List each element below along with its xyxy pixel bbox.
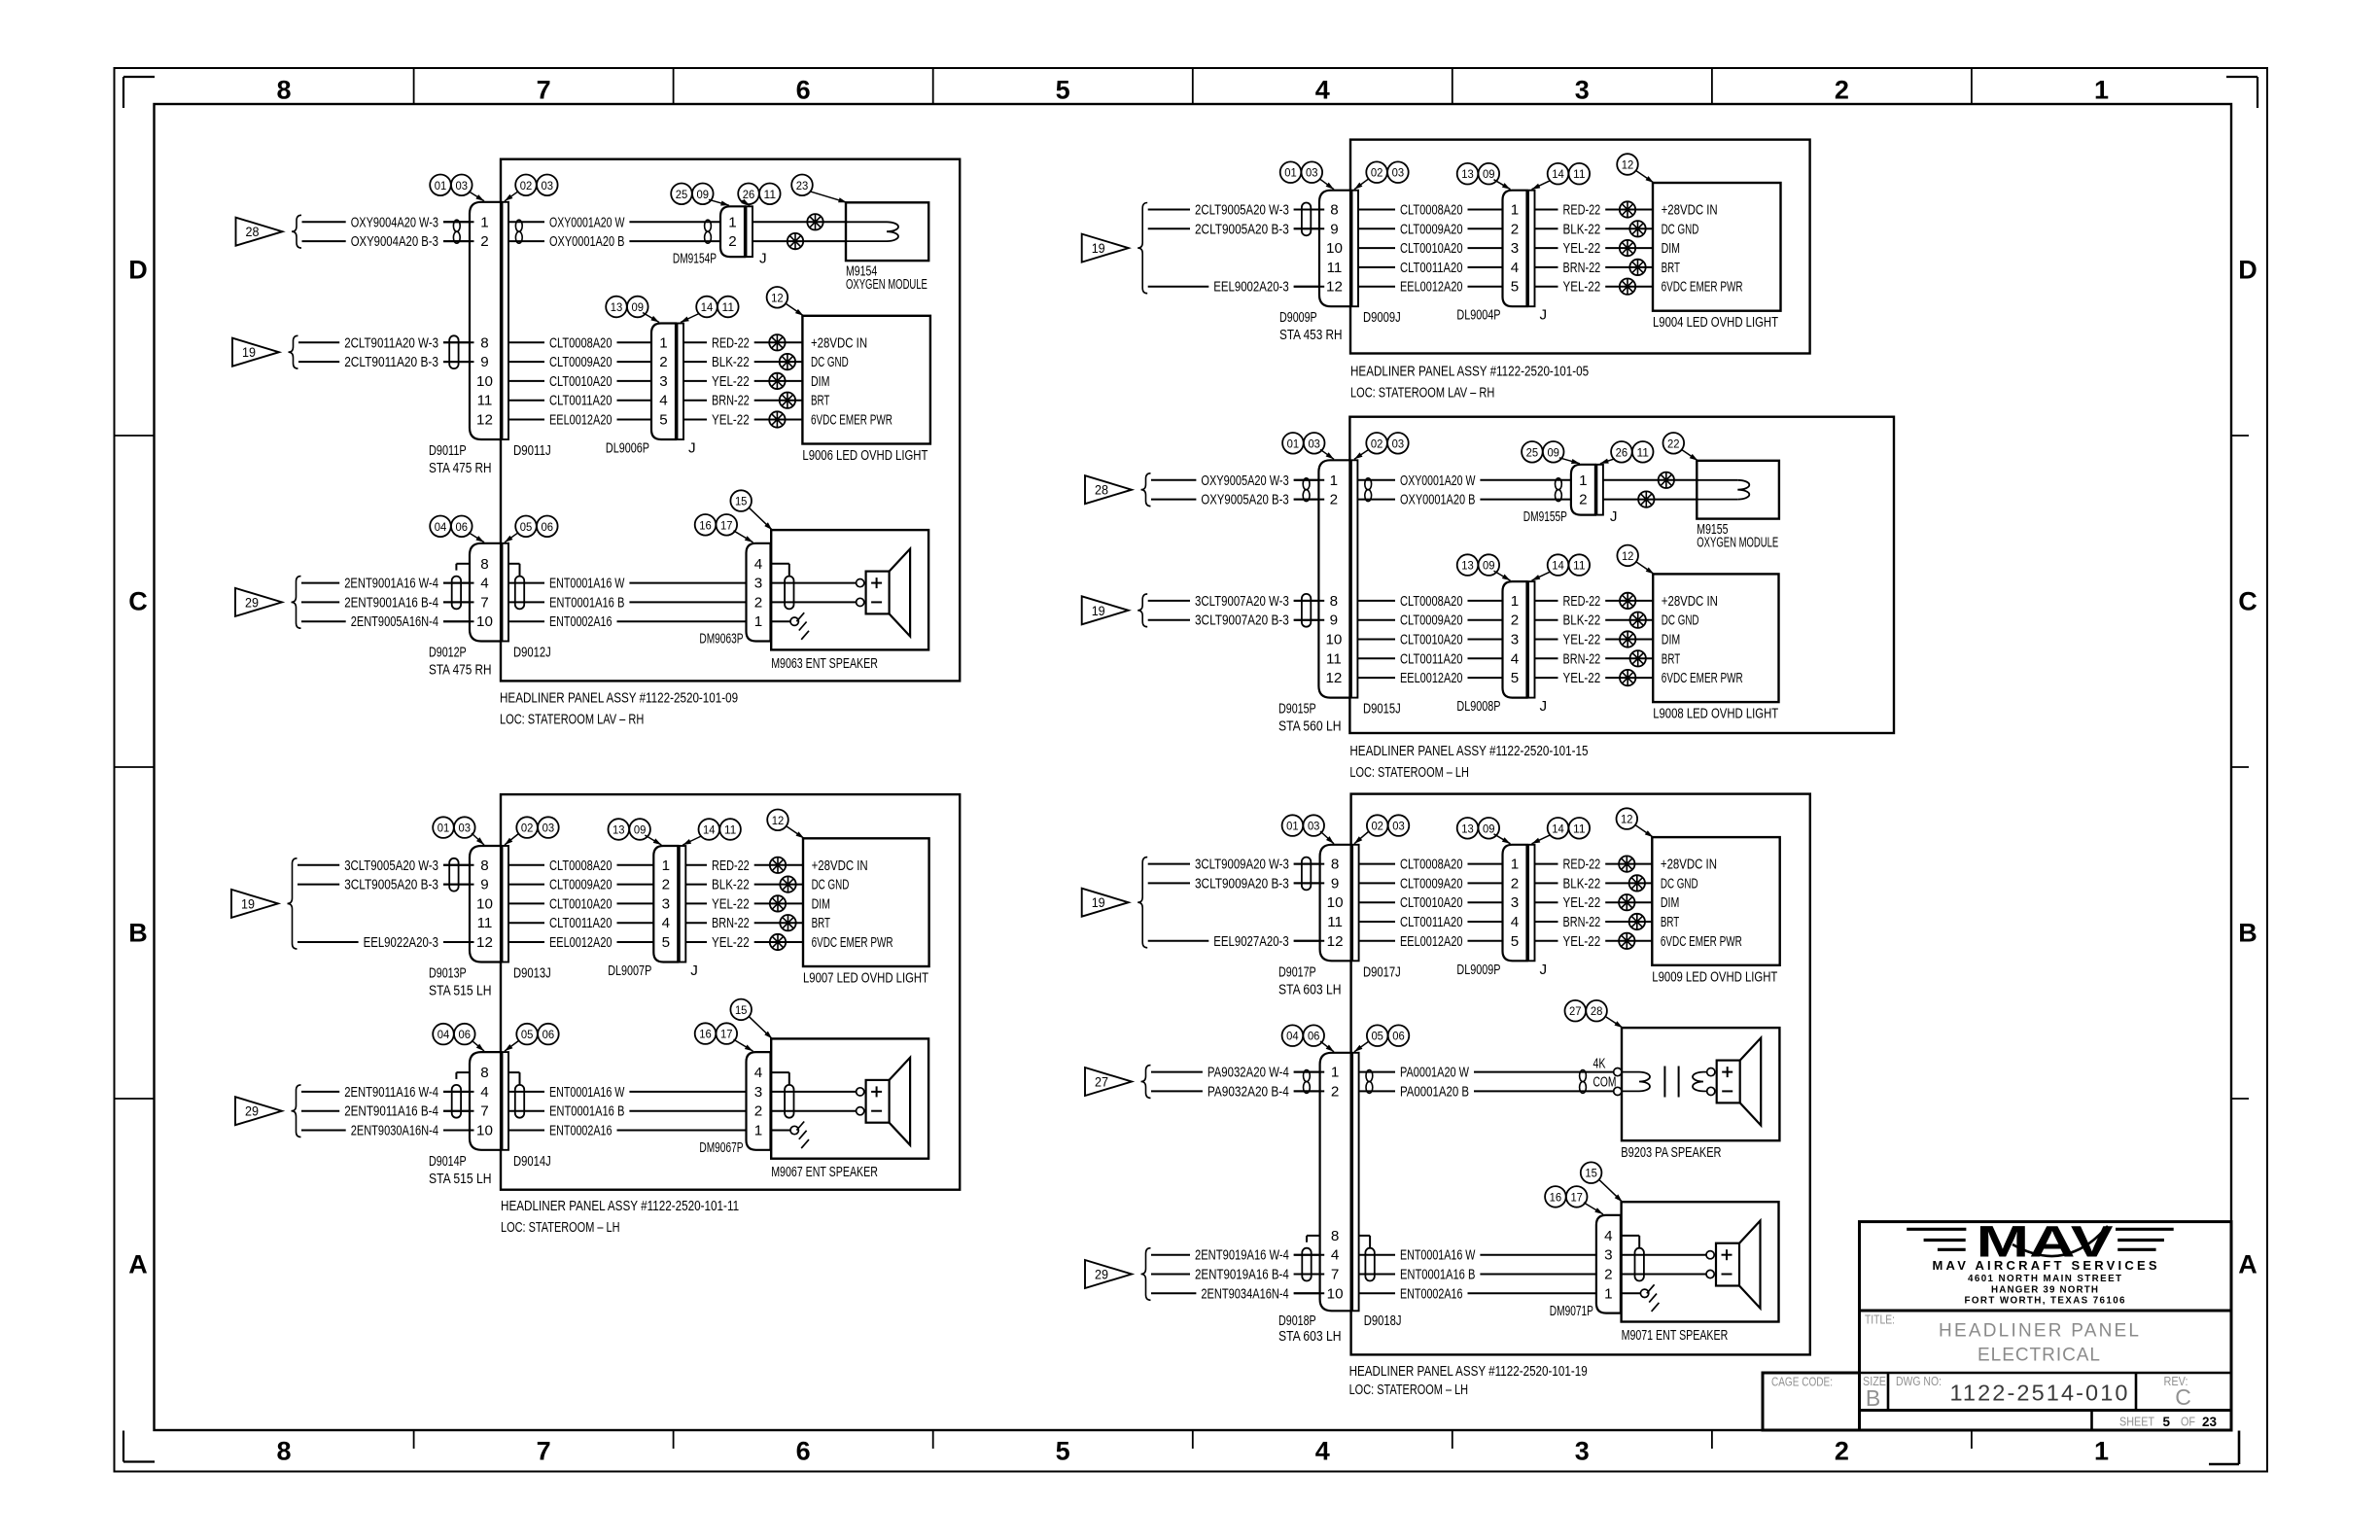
svg-text:ENT0001A16 W: ENT0001A16 W <box>1400 1247 1476 1264</box>
svg-text:10: 10 <box>1326 240 1343 257</box>
svg-text:1: 1 <box>1330 472 1338 489</box>
svg-text:01: 01 <box>437 822 450 835</box>
svg-text:D: D <box>128 256 148 285</box>
svg-text:CLT0010A20: CLT0010A20 <box>1400 894 1463 911</box>
svg-text:HEADLINER PANEL ASSY #1122-252: HEADLINER PANEL ASSY #1122-2520-101-09 <box>500 689 738 706</box>
svg-text:L9007 LED OVHD LIGHT: L9007 LED OVHD LIGHT <box>803 970 928 987</box>
svg-text:D9018P: D9018P <box>1278 1312 1316 1329</box>
svg-text:11: 11 <box>477 393 493 409</box>
svg-text:10: 10 <box>1325 632 1342 648</box>
svg-text:3CLT9005A20 W-3: 3CLT9005A20 W-3 <box>344 857 438 874</box>
svg-text:2ENT9030A16N-4: 2ENT9030A16N-4 <box>351 1123 438 1139</box>
svg-text:CLT0011A20: CLT0011A20 <box>1400 914 1463 930</box>
svg-text:HEADLINER PANEL ASSY #1122-252: HEADLINER PANEL ASSY #1122-2520-101-05 <box>1350 363 1589 379</box>
svg-text:CLT0009A20: CLT0009A20 <box>549 354 612 370</box>
svg-text:M9063 ENT SPEAKER: M9063 ENT SPEAKER <box>771 655 878 672</box>
svg-text:1: 1 <box>1511 202 1519 219</box>
svg-text:6VDC EMER PWR: 6VDC EMER PWR <box>811 412 892 429</box>
svg-text:17: 17 <box>1570 1190 1583 1204</box>
svg-text:YEL-22: YEL-22 <box>1563 240 1601 257</box>
svg-text:3: 3 <box>1575 1437 1590 1466</box>
svg-text:4: 4 <box>1511 650 1519 667</box>
svg-text:TITLE:: TITLE: <box>1865 1313 1895 1327</box>
svg-text:09: 09 <box>1483 822 1495 835</box>
svg-text:BRN-22: BRN-22 <box>712 915 750 931</box>
svg-text:19: 19 <box>1092 241 1105 256</box>
svg-text:4601 NORTH MAIN STREET: 4601 NORTH MAIN STREET <box>1968 1274 2121 1284</box>
svg-text:09: 09 <box>697 188 710 201</box>
svg-text:+28VDC IN: +28VDC IN <box>812 857 868 874</box>
svg-text:7: 7 <box>537 76 551 105</box>
svg-text:ENT0001A16 B: ENT0001A16 B <box>1400 1267 1475 1283</box>
svg-text:OXY0001A20 B: OXY0001A20 B <box>1400 492 1475 508</box>
svg-text:5: 5 <box>1511 670 1519 686</box>
svg-text:D9014J: D9014J <box>513 1153 551 1170</box>
svg-text:EEL0012A20: EEL0012A20 <box>1400 670 1463 686</box>
svg-text:PA0001A20 W: PA0001A20 W <box>1400 1065 1469 1081</box>
svg-text:D9015J: D9015J <box>1363 701 1401 717</box>
svg-text:L9006 LED OVHD LIGHT: L9006 LED OVHD LIGHT <box>802 447 927 464</box>
svg-text:12: 12 <box>1621 813 1633 826</box>
svg-text:28: 28 <box>1095 483 1108 498</box>
svg-text:DIM: DIM <box>1662 240 1680 257</box>
svg-text:BLK-22: BLK-22 <box>1563 612 1601 629</box>
svg-text:BRN-22: BRN-22 <box>1563 650 1601 667</box>
svg-text:19: 19 <box>241 896 255 911</box>
svg-text:EEL0012A20: EEL0012A20 <box>1400 933 1463 950</box>
svg-text:ENT0001A16 W: ENT0001A16 W <box>549 576 625 592</box>
svg-text:1: 1 <box>1604 1285 1612 1302</box>
svg-text:2: 2 <box>1835 76 1849 105</box>
svg-text:STA 603 LH: STA 603 LH <box>1278 1328 1342 1345</box>
svg-text:02: 02 <box>1371 437 1383 450</box>
svg-text:+28VDC IN: +28VDC IN <box>1661 857 1717 873</box>
svg-text:C: C <box>2238 587 2257 616</box>
svg-text:5: 5 <box>1056 1437 1070 1466</box>
svg-text:CLT0008A20: CLT0008A20 <box>1400 202 1463 219</box>
svg-text:06: 06 <box>1392 1030 1405 1043</box>
svg-text:11: 11 <box>722 300 735 314</box>
svg-text:OXY9004A20 W-3: OXY9004A20 W-3 <box>351 214 438 230</box>
svg-text:PA9032A20 W-4: PA9032A20 W-4 <box>1207 1065 1289 1081</box>
svg-text:D: D <box>2238 256 2257 285</box>
svg-text:2: 2 <box>662 877 670 893</box>
svg-text:LOC: STATEROOM LAV – RH: LOC: STATEROOM LAV – RH <box>500 711 644 727</box>
svg-text:8: 8 <box>480 556 488 573</box>
svg-text:5: 5 <box>1511 279 1519 296</box>
svg-text:8: 8 <box>1331 857 1339 873</box>
svg-text:LOC: STATEROOM LAV – RH: LOC: STATEROOM LAV – RH <box>1350 384 1494 401</box>
svg-text:CLT0011A20: CLT0011A20 <box>1400 260 1463 276</box>
svg-text:04: 04 <box>1286 1030 1299 1043</box>
svg-text:DC GND: DC GND <box>1662 612 1699 629</box>
svg-text:09: 09 <box>634 823 647 837</box>
svg-text:EEL0012A20: EEL0012A20 <box>549 934 612 951</box>
svg-text:19: 19 <box>1092 604 1105 618</box>
svg-text:DM9063P: DM9063P <box>699 631 743 647</box>
svg-text:YEL-22: YEL-22 <box>1563 670 1601 686</box>
svg-text:RED-22: RED-22 <box>1563 593 1601 610</box>
svg-text:B: B <box>128 919 148 948</box>
svg-text:2ENT9005A16N-4: 2ENT9005A16N-4 <box>351 613 438 630</box>
svg-text:ENT0002A16: ENT0002A16 <box>1400 1285 1463 1302</box>
svg-text:D9011J: D9011J <box>513 442 551 459</box>
svg-text:5: 5 <box>1056 76 1070 105</box>
svg-text:09: 09 <box>1547 445 1559 459</box>
svg-text:7: 7 <box>480 1103 488 1120</box>
svg-text:STA 475 RH: STA 475 RH <box>429 460 492 476</box>
svg-text:3: 3 <box>1511 240 1519 257</box>
svg-text:9: 9 <box>1330 221 1338 237</box>
svg-text:OXY9005A20 W-3: OXY9005A20 W-3 <box>1201 472 1288 489</box>
svg-text:CLT0010A20: CLT0010A20 <box>549 373 612 390</box>
svg-text:CLT0010A20: CLT0010A20 <box>1400 240 1463 257</box>
svg-text:2ENT9019A16 W-4: 2ENT9019A16 W-4 <box>1195 1247 1289 1264</box>
svg-text:22: 22 <box>1667 437 1680 450</box>
svg-text:7: 7 <box>1331 1267 1339 1283</box>
svg-text:HEADLINER PANEL ASSY #1122-252: HEADLINER PANEL ASSY #1122-2520-101-15 <box>1349 743 1588 759</box>
svg-text:DL9008P: DL9008P <box>1456 698 1500 715</box>
svg-text:11: 11 <box>1326 650 1342 667</box>
svg-text:CLT0008A20: CLT0008A20 <box>1400 593 1463 610</box>
svg-text:OXY9004A20 B-3: OXY9004A20 B-3 <box>351 233 438 250</box>
svg-text:J: J <box>1610 508 1618 525</box>
svg-text:4: 4 <box>1604 1228 1612 1244</box>
svg-text:BRT: BRT <box>1662 260 1680 276</box>
svg-text:8: 8 <box>480 334 488 351</box>
svg-text:4: 4 <box>480 1084 488 1101</box>
svg-text:YEL-22: YEL-22 <box>712 412 750 429</box>
svg-text:10: 10 <box>1327 1285 1344 1302</box>
svg-text:04: 04 <box>435 520 447 534</box>
svg-text:8: 8 <box>1330 202 1338 219</box>
svg-text:L9009 LED OVHD LIGHT: L9009 LED OVHD LIGHT <box>1652 968 1777 985</box>
svg-text:12: 12 <box>771 291 784 304</box>
svg-text:3: 3 <box>1575 76 1590 105</box>
svg-text:COM: COM <box>1593 1074 1617 1091</box>
svg-text:3: 3 <box>1511 894 1519 911</box>
svg-text:05: 05 <box>521 1028 534 1041</box>
svg-text:03: 03 <box>1392 166 1405 180</box>
svg-text:02: 02 <box>520 179 533 192</box>
svg-text:C: C <box>2175 1384 2191 1410</box>
svg-text:11: 11 <box>1573 822 1586 835</box>
svg-text:DM9067P: DM9067P <box>699 1139 743 1156</box>
svg-text:05: 05 <box>1371 1030 1383 1043</box>
svg-text:2: 2 <box>1835 1437 1849 1466</box>
svg-text:1: 1 <box>1579 472 1587 489</box>
svg-text:5: 5 <box>662 934 670 951</box>
svg-text:8: 8 <box>1330 593 1338 610</box>
svg-text:10: 10 <box>476 895 493 912</box>
svg-text:+28VDC IN: +28VDC IN <box>811 334 867 351</box>
svg-text:STA 515 LH: STA 515 LH <box>429 1171 492 1187</box>
svg-text:1: 1 <box>2094 1437 2109 1466</box>
svg-text:06: 06 <box>542 520 554 534</box>
svg-text:OXY0001A20 W: OXY0001A20 W <box>549 214 625 230</box>
svg-text:D9009P: D9009P <box>1279 309 1317 326</box>
svg-text:BLK-22: BLK-22 <box>712 877 750 893</box>
svg-text:3CLT9009A20 B-3: 3CLT9009A20 B-3 <box>1195 875 1289 892</box>
svg-text:2ENT9019A16 B-4: 2ENT9019A16 B-4 <box>1195 1267 1289 1283</box>
svg-text:DC GND: DC GND <box>1661 875 1698 892</box>
svg-text:9: 9 <box>480 354 488 370</box>
svg-text:C: C <box>128 587 148 616</box>
svg-text:YEL-22: YEL-22 <box>712 895 750 912</box>
svg-text:4: 4 <box>1315 76 1330 105</box>
svg-text:CLT0011A20: CLT0011A20 <box>549 393 612 409</box>
svg-text:6: 6 <box>796 76 811 105</box>
svg-text:CLT0009A20: CLT0009A20 <box>549 877 612 893</box>
svg-text:D9018J: D9018J <box>1364 1312 1402 1329</box>
svg-text:3CLT9005A20 B-3: 3CLT9005A20 B-3 <box>344 877 438 893</box>
svg-text:05: 05 <box>520 520 533 534</box>
svg-text:YEL-22: YEL-22 <box>1563 933 1601 950</box>
svg-text:1: 1 <box>754 1123 762 1139</box>
svg-text:29: 29 <box>245 1104 259 1119</box>
svg-text:EEL0012A20: EEL0012A20 <box>549 412 612 429</box>
svg-text:BRT: BRT <box>1661 914 1679 930</box>
svg-text:29: 29 <box>245 595 259 610</box>
svg-text:4: 4 <box>754 556 762 573</box>
svg-text:+28VDC IN: +28VDC IN <box>1662 202 1718 219</box>
svg-text:CLT0010A20: CLT0010A20 <box>1400 632 1463 648</box>
svg-text:D9013J: D9013J <box>513 965 551 982</box>
svg-text:8: 8 <box>480 857 488 874</box>
svg-text:11: 11 <box>1573 167 1586 181</box>
svg-text:03: 03 <box>1308 820 1320 833</box>
svg-text:ENT0001A16 B: ENT0001A16 B <box>549 594 624 611</box>
svg-text:25: 25 <box>1526 445 1539 459</box>
svg-text:DL9007P: DL9007P <box>608 962 651 979</box>
svg-text:09: 09 <box>1483 559 1495 573</box>
svg-text:+28VDC IN: +28VDC IN <box>1662 593 1718 610</box>
svg-text:4: 4 <box>1315 1437 1330 1466</box>
svg-text:L9004 LED OVHD LIGHT: L9004 LED OVHD LIGHT <box>1653 314 1778 331</box>
svg-text:STA 515 LH: STA 515 LH <box>429 983 492 999</box>
svg-text:BLK-22: BLK-22 <box>1563 221 1601 237</box>
svg-text:J: J <box>759 251 767 267</box>
svg-text:10: 10 <box>476 1123 493 1139</box>
svg-text:2CLT9005A20 B-3: 2CLT9005A20 B-3 <box>1195 221 1289 237</box>
svg-text:J: J <box>1540 698 1548 715</box>
svg-text:02: 02 <box>521 822 534 835</box>
svg-text:7: 7 <box>480 594 488 611</box>
svg-text:06: 06 <box>459 1028 472 1041</box>
svg-text:12: 12 <box>1622 158 1634 172</box>
svg-text:1: 1 <box>659 334 667 351</box>
svg-text:12: 12 <box>772 814 785 827</box>
svg-text:6VDC EMER PWR: 6VDC EMER PWR <box>812 934 893 951</box>
svg-text:D9017J: D9017J <box>1363 963 1401 980</box>
svg-text:11: 11 <box>477 915 493 931</box>
svg-text:12: 12 <box>1325 670 1342 686</box>
svg-text:3: 3 <box>662 895 670 912</box>
svg-text:6VDC EMER PWR: 6VDC EMER PWR <box>1662 670 1743 686</box>
svg-text:14: 14 <box>703 823 716 837</box>
svg-text:HEADLINER PANEL ASSY #1122-252: HEADLINER PANEL ASSY #1122-2520-101-11 <box>501 1198 739 1214</box>
svg-text:RED-22: RED-22 <box>712 857 750 874</box>
svg-text:BRT: BRT <box>1662 650 1680 667</box>
svg-text:2: 2 <box>754 594 762 611</box>
svg-text:03: 03 <box>542 822 555 835</box>
svg-text:OXYGEN MODULE: OXYGEN MODULE <box>1697 535 1778 551</box>
svg-text:CLT0009A20: CLT0009A20 <box>1400 221 1463 237</box>
svg-text:26: 26 <box>743 188 755 201</box>
svg-text:ENT0002A16: ENT0002A16 <box>549 613 612 630</box>
svg-text:19: 19 <box>1092 895 1105 910</box>
svg-text:PA0001A20 B: PA0001A20 B <box>1400 1083 1469 1100</box>
svg-text:12: 12 <box>1326 279 1343 296</box>
svg-text:HEADLINER PANEL: HEADLINER PANEL <box>1939 1321 2139 1342</box>
svg-text:01: 01 <box>1284 166 1297 180</box>
svg-text:BRT: BRT <box>811 393 829 409</box>
svg-text:9: 9 <box>1331 875 1339 892</box>
svg-text:3: 3 <box>1511 632 1519 648</box>
svg-text:12: 12 <box>476 412 493 429</box>
svg-text:3CLT9007A20 W-3: 3CLT9007A20 W-3 <box>1195 593 1289 610</box>
svg-text:25: 25 <box>676 188 688 201</box>
svg-text:10: 10 <box>476 373 493 390</box>
svg-text:15: 15 <box>1585 1167 1597 1180</box>
svg-text:2: 2 <box>1511 612 1519 629</box>
svg-text:B: B <box>1866 1385 1880 1411</box>
svg-text:10: 10 <box>1327 894 1344 911</box>
svg-text:7: 7 <box>537 1437 551 1466</box>
svg-text:D9017P: D9017P <box>1278 963 1316 980</box>
svg-text:DIM: DIM <box>812 895 830 912</box>
svg-text:11: 11 <box>1573 559 1586 573</box>
svg-text:17: 17 <box>720 1028 733 1041</box>
svg-text:13: 13 <box>1461 559 1474 573</box>
svg-text:4: 4 <box>1511 260 1519 276</box>
svg-text:RED-22: RED-22 <box>1563 857 1601 873</box>
svg-text:LOC: STATEROOM – LH: LOC: STATEROOM – LH <box>1349 1382 1469 1398</box>
svg-text:2: 2 <box>1511 221 1519 237</box>
svg-text:2: 2 <box>659 354 667 370</box>
svg-text:BRN-22: BRN-22 <box>1563 260 1601 276</box>
svg-text:1: 1 <box>728 214 736 230</box>
svg-text:3CLT9009A20 W-3: 3CLT9009A20 W-3 <box>1195 857 1289 873</box>
svg-text:1: 1 <box>480 214 488 230</box>
svg-text:M9067 ENT SPEAKER: M9067 ENT SPEAKER <box>771 1164 878 1180</box>
svg-text:03: 03 <box>1306 166 1318 180</box>
svg-text:26: 26 <box>1616 445 1628 459</box>
svg-text:OXY0001A20 B: OXY0001A20 B <box>549 233 624 250</box>
svg-text:15: 15 <box>735 1003 748 1017</box>
svg-text:23: 23 <box>2202 1415 2218 1429</box>
svg-text:1: 1 <box>1331 1065 1339 1081</box>
svg-text:5: 5 <box>1511 933 1519 950</box>
svg-text:CLT0008A20: CLT0008A20 <box>549 334 612 351</box>
svg-text:BLK-22: BLK-22 <box>1563 875 1601 892</box>
svg-text:06: 06 <box>542 1028 555 1041</box>
svg-text:STA 453 RH: STA 453 RH <box>1279 327 1343 343</box>
svg-text:DL9009P: DL9009P <box>1456 962 1500 978</box>
svg-text:03: 03 <box>456 179 469 192</box>
svg-text:OXYGEN MODULE: OXYGEN MODULE <box>846 276 927 293</box>
svg-text:LOC: STATEROOM – LH: LOC: STATEROOM – LH <box>1349 764 1469 781</box>
svg-text:D9012P: D9012P <box>429 645 467 661</box>
svg-text:9: 9 <box>480 877 488 893</box>
svg-text:16: 16 <box>699 518 712 532</box>
svg-text:3CLT9007A20 B-3: 3CLT9007A20 B-3 <box>1195 612 1289 629</box>
svg-text:CLT0010A20: CLT0010A20 <box>549 895 612 912</box>
svg-text:HEADLINER PANEL ASSY #1122-252: HEADLINER PANEL ASSY #1122-2520-101-19 <box>1349 1363 1588 1380</box>
svg-text:L9008 LED OVHD LIGHT: L9008 LED OVHD LIGHT <box>1653 706 1778 722</box>
svg-text:2CLT9011A20 W-3: 2CLT9011A20 W-3 <box>344 334 438 351</box>
svg-text:STA 475 RH: STA 475 RH <box>429 662 492 679</box>
svg-text:13: 13 <box>1461 167 1474 181</box>
svg-text:03: 03 <box>542 179 554 192</box>
svg-text:DM9071P: DM9071P <box>1550 1303 1593 1319</box>
svg-text:14: 14 <box>1552 559 1564 573</box>
svg-text:06: 06 <box>456 520 469 534</box>
svg-text:D9012J: D9012J <box>513 645 551 661</box>
svg-text:B: B <box>2238 919 2257 948</box>
svg-text:8: 8 <box>1331 1228 1339 1244</box>
svg-text:4K: 4K <box>1593 1055 1606 1071</box>
svg-text:DWG NO:: DWG NO: <box>1896 1375 1942 1388</box>
svg-text:4: 4 <box>754 1065 762 1081</box>
svg-text:SHEET: SHEET <box>2119 1415 2154 1428</box>
svg-text:01: 01 <box>1287 437 1300 450</box>
svg-text:CAGE CODE:: CAGE CODE: <box>1771 1376 1833 1389</box>
svg-text:17: 17 <box>720 518 733 532</box>
svg-text:28: 28 <box>246 225 260 239</box>
svg-text:CLT0009A20: CLT0009A20 <box>1400 612 1463 629</box>
svg-text:2: 2 <box>754 1103 762 1120</box>
svg-text:ENT0002A16: ENT0002A16 <box>549 1123 612 1139</box>
svg-text:2ENT9034A16N-4: 2ENT9034A16N-4 <box>1201 1285 1288 1302</box>
svg-text:27: 27 <box>1569 1004 1582 1018</box>
svg-text:6: 6 <box>796 1437 811 1466</box>
svg-text:DIM: DIM <box>1662 632 1680 648</box>
svg-text:A: A <box>2238 1250 2257 1279</box>
svg-text:8: 8 <box>276 1437 291 1466</box>
svg-text:BRN-22: BRN-22 <box>712 393 750 409</box>
svg-text:DIM: DIM <box>811 373 829 390</box>
svg-text:DC GND: DC GND <box>1662 221 1699 237</box>
svg-text:D9015P: D9015P <box>1278 701 1316 717</box>
svg-text:13: 13 <box>1461 822 1474 835</box>
svg-text:DL9004P: DL9004P <box>1456 307 1500 324</box>
svg-text:J: J <box>1540 307 1548 324</box>
svg-text:EEL9022A20-3: EEL9022A20-3 <box>364 934 438 951</box>
svg-text:5: 5 <box>2163 1415 2171 1429</box>
svg-text:D9013P: D9013P <box>429 965 467 982</box>
svg-text:FORT WORTH, TEXAS 76106: FORT WORTH, TEXAS 76106 <box>1965 1296 2126 1307</box>
svg-text:OXY0001A20 W: OXY0001A20 W <box>1400 472 1476 489</box>
svg-text:2: 2 <box>1330 492 1338 508</box>
svg-text:12: 12 <box>476 934 493 951</box>
svg-text:11: 11 <box>1327 914 1343 930</box>
svg-text:14: 14 <box>1552 822 1564 835</box>
svg-text:2: 2 <box>480 233 488 250</box>
svg-text:RED-22: RED-22 <box>712 334 750 351</box>
svg-text:CLT0008A20: CLT0008A20 <box>1400 857 1463 873</box>
svg-text:13: 13 <box>611 300 623 314</box>
svg-text:HANGER 39 NORTH: HANGER 39 NORTH <box>1991 1285 2098 1296</box>
svg-text:11: 11 <box>724 823 737 837</box>
svg-text:YEL-22: YEL-22 <box>1563 632 1601 648</box>
svg-text:16: 16 <box>699 1028 712 1041</box>
svg-text:6VDC EMER PWR: 6VDC EMER PWR <box>1661 933 1742 950</box>
svg-text:2CLT9011A20 B-3: 2CLT9011A20 B-3 <box>344 354 438 370</box>
svg-text:3: 3 <box>754 576 762 592</box>
svg-text:DM9155P: DM9155P <box>1523 508 1567 525</box>
svg-text:11: 11 <box>764 188 777 201</box>
